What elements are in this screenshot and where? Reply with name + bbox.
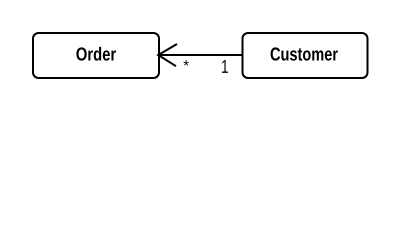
open arrowhead at Order [158, 44, 177, 66]
multiplicity * [183, 60, 188, 65]
class box Customer [243, 33, 368, 78]
association line Customer to Order [159, 54, 242, 56]
label Customer [271, 47, 338, 60]
class box Order [33, 33, 159, 78]
label Order [76, 47, 116, 61]
multiplicity 1 [222, 60, 228, 73]
